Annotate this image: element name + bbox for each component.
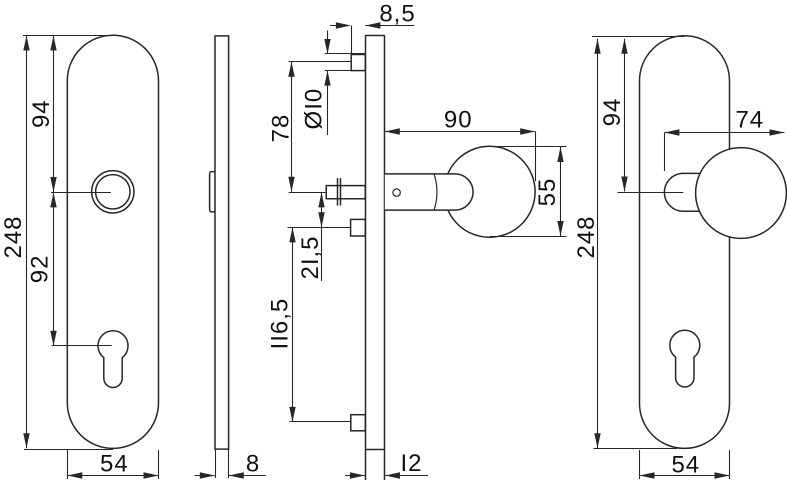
svg-text:74: 74 bbox=[735, 107, 764, 134]
svg-text:55: 55 bbox=[534, 178, 561, 207]
svg-text:94: 94 bbox=[599, 98, 626, 127]
svg-text:78: 78 bbox=[268, 114, 295, 143]
svg-text:ØI0: ØI0 bbox=[300, 88, 327, 130]
svg-text:94: 94 bbox=[28, 99, 55, 128]
svg-text:92: 92 bbox=[27, 255, 54, 284]
svg-text:90: 90 bbox=[444, 107, 473, 134]
svg-text:8,5: 8,5 bbox=[379, 1, 415, 28]
svg-text:8: 8 bbox=[246, 451, 260, 478]
svg-text:I2: I2 bbox=[400, 450, 422, 477]
svg-text:2I,5: 2I,5 bbox=[297, 235, 324, 279]
svg-text:248: 248 bbox=[573, 215, 600, 258]
svg-text:248: 248 bbox=[0, 215, 27, 258]
svg-text:54: 54 bbox=[100, 451, 129, 478]
svg-text:54: 54 bbox=[671, 451, 700, 478]
svg-text:II6,5: II6,5 bbox=[267, 298, 294, 350]
